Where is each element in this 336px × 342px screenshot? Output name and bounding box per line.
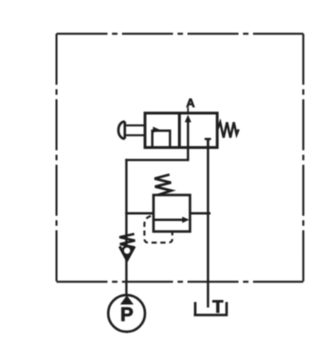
relief valve RV box xyxy=(154,195,191,232)
valve return spring xyxy=(217,122,238,137)
push button actuator xyxy=(118,122,124,139)
directional valve V1 body xyxy=(145,113,217,147)
relief valve spring xyxy=(155,175,172,195)
label P xyxy=(122,307,133,320)
valve V1 left position: U-turn flow path xyxy=(152,131,170,148)
valve V1 left position: flow arrowhead xyxy=(153,127,160,133)
label T xyxy=(213,300,223,312)
tank symbol xyxy=(194,302,228,315)
valve V1 right position: blocked T port xyxy=(205,139,211,148)
wire: main pressure vertical line xyxy=(125,159,127,295)
wire: tank drain vertical xyxy=(207,139,209,308)
wire: relief valve inlet xyxy=(125,212,153,214)
relief valve internal flow arrowhead xyxy=(182,217,189,223)
pump flow direction triangle (solid) xyxy=(120,295,133,304)
relief valve pilot line (dashed) xyxy=(144,216,172,243)
enclosure border (phantom dash-dot outline) xyxy=(57,34,304,282)
label A xyxy=(186,99,194,107)
valve V1 right position: P-to-A flow line xyxy=(187,121,189,148)
pump P1 circle xyxy=(108,295,145,332)
push button rods xyxy=(125,125,146,135)
wire: relief valve outlet to drain xyxy=(190,212,211,214)
wire: P line horizontal under valve xyxy=(125,159,189,161)
port A stub xyxy=(187,108,189,114)
valve V1 right position: flow arrowhead to A xyxy=(185,115,192,123)
check valve ball xyxy=(123,246,132,255)
valve V1 divider between positions xyxy=(178,113,181,147)
relief valve internal flow arrow line xyxy=(155,219,185,221)
check valve spring xyxy=(120,234,136,247)
check valve seat V xyxy=(120,246,135,260)
wire: valve P stub down to horizontal line xyxy=(187,148,189,161)
